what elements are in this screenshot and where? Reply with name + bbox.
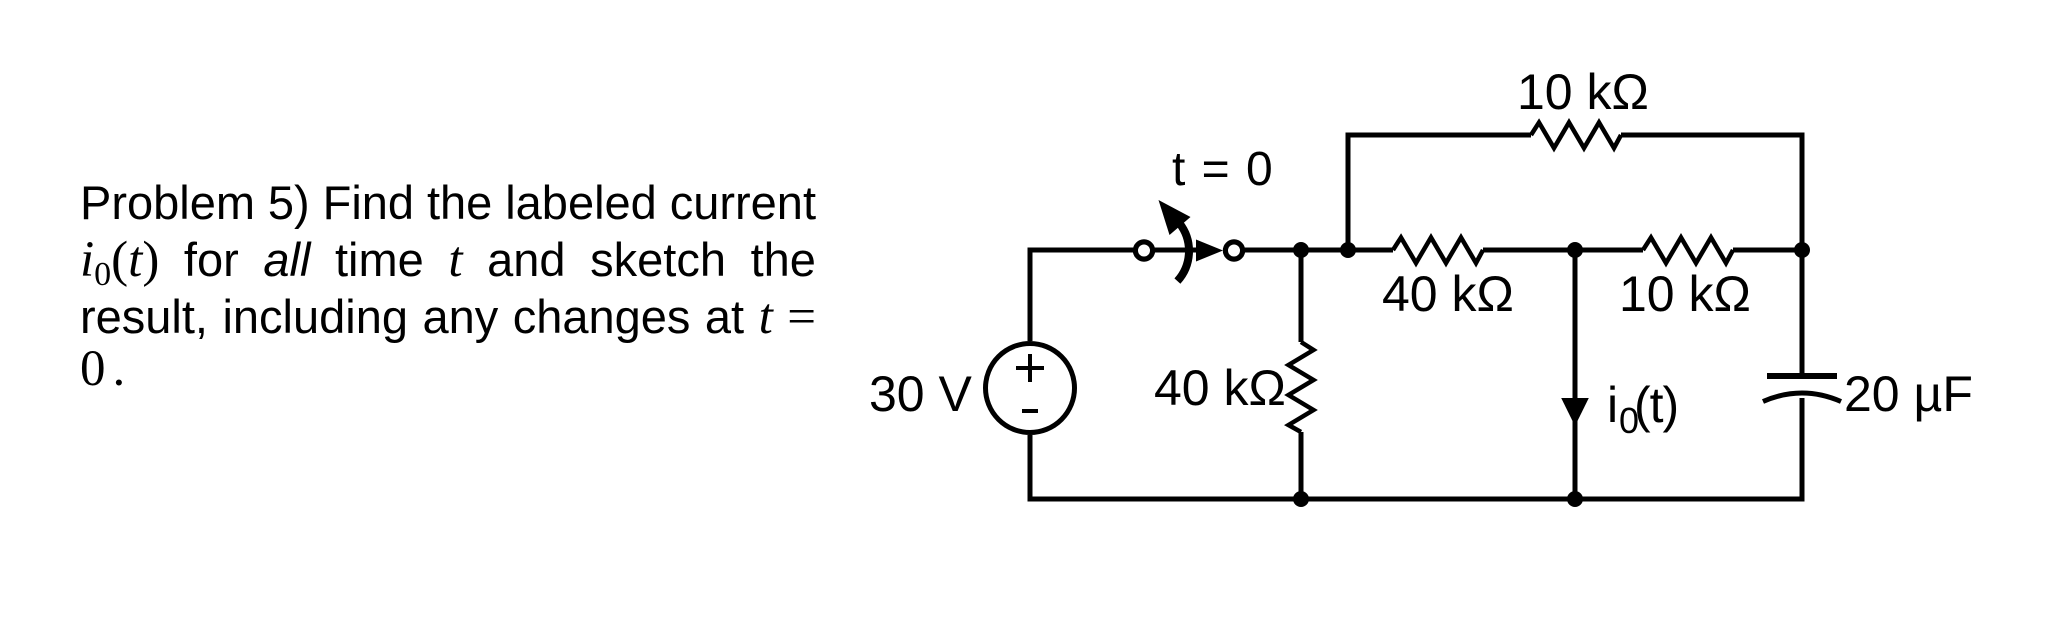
svg-text:30 V: 30 V bbox=[869, 366, 973, 422]
svg-text:10 kΩ: 10 kΩ bbox=[1619, 266, 1751, 322]
svg-text:40 kΩ: 40 kΩ bbox=[1154, 360, 1286, 416]
svg-text:i: i bbox=[1607, 377, 1618, 433]
svg-text:(t): (t) bbox=[1634, 377, 1678, 433]
svg-text:10 kΩ: 10 kΩ bbox=[1517, 64, 1649, 120]
svg-text:20 µF: 20 µF bbox=[1844, 366, 1973, 422]
svg-text:40 kΩ: 40 kΩ bbox=[1382, 266, 1514, 322]
svg-text:t = 0: t = 0 bbox=[1172, 143, 1273, 196]
